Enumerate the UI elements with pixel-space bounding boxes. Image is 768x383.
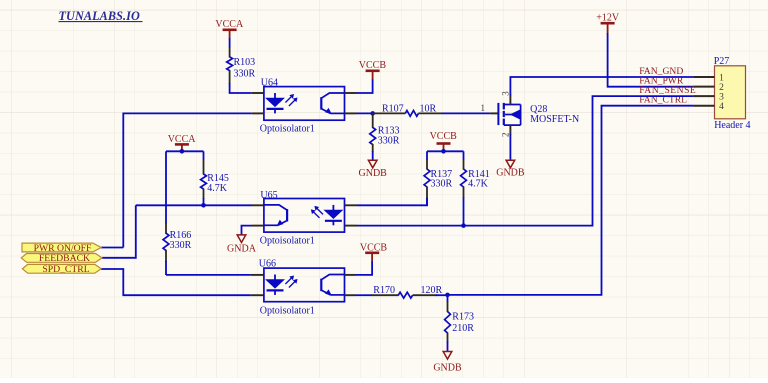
- wire U64 pin2 to left bus: [123, 112, 251, 114]
- wire U64 pin3 to node: [357, 112, 373, 114]
- wire node to FAN_CTRL: [448, 106, 694, 295]
- svg-text:GNDA: GNDA: [227, 244, 257, 255]
- junction R173 node: [445, 293, 450, 298]
- resistor R145 4.7K: [201, 151, 229, 205]
- resistor R137 330R: [424, 151, 452, 206]
- wire FEEDBACK vertical: [102, 205, 136, 257]
- svg-text:1: 1: [719, 73, 724, 83]
- pin stub U66 pin1: [251, 274, 264, 276]
- junction VCCB rail: [441, 149, 446, 154]
- wire U65 pin2 to GNDA: [242, 226, 253, 235]
- svg-text:120R: 120R: [421, 285, 443, 296]
- resistor R103 330R: [227, 48, 256, 85]
- resistor R133 330R: [370, 113, 400, 160]
- svg-text:2: 2: [501, 133, 511, 138]
- wire Q28 drain to FAN_GND: [510, 77, 693, 96]
- GNDB ground symbol: [433, 352, 462, 374]
- resistor R173 210R: [445, 295, 475, 352]
- pin stub U65 pin1: [252, 204, 264, 206]
- svg-text:R170: R170: [373, 285, 395, 296]
- pin stub P27 pin3: [693, 95, 714, 97]
- svg-text:3: 3: [501, 91, 511, 96]
- wire VCCB rail (middle): [427, 150, 464, 152]
- pin stub P27 pin4: [693, 105, 714, 107]
- wire +12V to FAN_PWR: [608, 33, 694, 87]
- svg-text:Optoisolator1: Optoisolator1: [260, 124, 315, 135]
- svg-text:330R: 330R: [234, 68, 256, 79]
- junction node R133/R107: [370, 111, 375, 116]
- optoisolator U64: [264, 87, 345, 121]
- svg-text:U66: U66: [259, 259, 276, 270]
- svg-text:330R: 330R: [170, 240, 192, 251]
- svg-text:R173: R173: [452, 312, 474, 323]
- pin stub U64 pin2: [252, 112, 264, 114]
- svg-text:1: 1: [481, 103, 486, 113]
- wire R170 to node: [436, 294, 448, 296]
- optoisolator U66: [264, 268, 345, 302]
- pin stub P27 pin1: [693, 76, 714, 78]
- svg-text:330R: 330R: [431, 178, 453, 189]
- resistor R141 4.7K: [461, 151, 490, 225]
- resistor R170 120R: [356, 285, 443, 298]
- svg-text:R107: R107: [382, 104, 404, 115]
- svg-text:Optoisolator1: Optoisolator1: [260, 236, 315, 247]
- svg-text:330R: 330R: [378, 135, 400, 146]
- svg-text:10R: 10R: [420, 104, 437, 115]
- svg-text:210R: 210R: [452, 323, 474, 334]
- svg-text:VCCB: VCCB: [360, 243, 388, 254]
- svg-text:+12V: +12V: [596, 12, 620, 23]
- svg-text:SPD_CTRL: SPD_CTRL: [42, 264, 89, 275]
- svg-text:Header 4: Header 4: [714, 120, 750, 131]
- wire Q28 source to GNDB: [509, 134, 511, 160]
- power symbol VCCB (bottom): [360, 243, 388, 262]
- junction R145 to feedback wire: [201, 203, 206, 208]
- svg-text:GNDB: GNDB: [433, 363, 462, 374]
- svg-text:U65: U65: [260, 190, 277, 201]
- pin stub U65 pin2: [252, 225, 264, 227]
- svg-text:4.7K: 4.7K: [468, 178, 489, 189]
- optoisolator U65: [264, 199, 345, 233]
- wire R103 to U64 pin1: [230, 83, 252, 93]
- power symbol VCCA (top): [215, 19, 244, 39]
- svg-text:3: 3: [719, 93, 724, 103]
- junction VCCA rail: [180, 149, 185, 154]
- GNDB ground symbol: [496, 160, 525, 178]
- pin stub U66 pin2: [251, 294, 264, 296]
- svg-text:MOSFET-N: MOSFET-N: [530, 114, 579, 125]
- pin stub U64 pin3 (emitter): [345, 112, 357, 114]
- port PWR ON/OFF: [22, 243, 101, 254]
- svg-text:4.7K: 4.7K: [207, 183, 228, 194]
- svg-text:GNDB: GNDB: [496, 168, 525, 179]
- wire R166 to U66 pin1: [165, 274, 167, 275]
- wire U65 pin4 to R137: [357, 198, 427, 205]
- pin stub U66 pin4: [345, 274, 357, 276]
- wire VCCA to R103: [229, 38, 231, 48]
- GNDA ground symbol: [227, 235, 257, 255]
- svg-text:GNDB: GNDB: [359, 168, 388, 179]
- svg-text:Optoisolator1: Optoisolator1: [260, 306, 315, 317]
- power symbol VCCB (top): [359, 60, 387, 79]
- title TUNALABS.IO: [59, 9, 143, 23]
- wire feedback row to U65 pin1: [136, 204, 252, 206]
- svg-text:U64: U64: [261, 77, 278, 88]
- wire U64 pin4 to VCCB: [357, 79, 373, 93]
- power symbol VCCA (middle): [168, 134, 197, 152]
- pin stub U65 pin4: [345, 204, 358, 206]
- wire VCCA rail: [166, 150, 204, 152]
- svg-text:FEEDBACK: FEEDBACK: [39, 253, 90, 264]
- power symbol VCCB (middle): [430, 131, 458, 152]
- wire U65 pin3 to FAN_SENSE: [357, 96, 693, 226]
- port FEEDBACK: [21, 253, 102, 264]
- transistor Q28 MOSFET-N: [481, 91, 521, 137]
- svg-text:2: 2: [719, 83, 724, 93]
- pin stub P27 pin2: [693, 86, 714, 88]
- GNDB ground symbol: [359, 160, 388, 179]
- svg-text:VCCA: VCCA: [215, 19, 244, 30]
- connector P27 Header 4: [715, 66, 746, 119]
- svg-text:P27: P27: [714, 56, 730, 67]
- svg-text:VCCA: VCCA: [168, 134, 197, 145]
- junction R141 bottom: [461, 223, 466, 228]
- pin stub U64 pin1: [252, 92, 264, 94]
- svg-text:VCCB: VCCB: [430, 131, 458, 142]
- svg-text:R103: R103: [234, 57, 256, 68]
- svg-text:4: 4: [719, 102, 724, 112]
- svg-text:VCCB: VCCB: [359, 60, 387, 71]
- pin stub U66 pin3: [345, 294, 357, 296]
- resistor R166 330R: [163, 151, 192, 275]
- wire U66 pin4 to VCCB: [356, 261, 372, 275]
- resistor R107 10R: [373, 104, 441, 117]
- wire PWR ON/OFF port to bus: [101, 247, 123, 249]
- power symbol +12V: [596, 12, 620, 34]
- pin stub U64 pin4 (collector): [345, 92, 357, 94]
- wire SPD_CTRL to U66 pin2: [101, 269, 251, 295]
- pin stub U65 pin3: [345, 225, 358, 227]
- wire R107 to Q28 gate: [441, 112, 490, 114]
- port SPD_CTRL: [22, 264, 101, 275]
- wire left bus down to PWR ON/OFF port: [122, 113, 124, 248]
